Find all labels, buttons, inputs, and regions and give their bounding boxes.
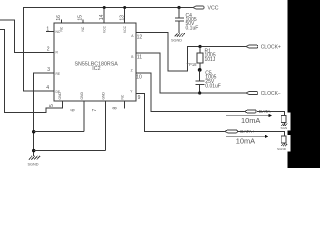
- svg-text:0.1uF: 0.1uF: [186, 25, 199, 31]
- svg-text:12: 12: [137, 34, 143, 40]
- svg-text:3: 3: [47, 67, 50, 73]
- pin 8 NC stub: [113, 94, 125, 109]
- terminal CLOCK+: [246, 45, 281, 51]
- ground SGND (C4): [171, 33, 185, 42]
- wire ground rail 1 to pin 6: [34, 131, 84, 133]
- pin 16 NC stub: [56, 15, 63, 32]
- svg-text:NC: NC: [121, 94, 125, 99]
- svg-text:16: 16: [56, 15, 62, 21]
- pin 13 VCC label: [120, 15, 127, 33]
- resistor termination 50ohm (DATA-): [281, 116, 286, 124]
- node junction ground rail 1: [32, 130, 35, 133]
- wire ground rail 2 to pin 7: [34, 150, 106, 152]
- pin 3 RE wire to ground net: [34, 67, 61, 156]
- svg-text:RE: RE: [56, 72, 61, 76]
- svg-text:10mA: 10mA: [236, 137, 255, 146]
- svg-text:6: 6: [71, 109, 77, 112]
- op-amp U1 : IC2 SN55LBC180RSA body: [54, 23, 136, 101]
- svg-text:7: 7: [92, 109, 98, 112]
- wire W2 from left edge to pin 5 (GND): [0, 29, 62, 112]
- resistor R1: [197, 47, 216, 70]
- svg-text:1: 1: [46, 26, 49, 32]
- pin 6 GND wire to ground rail: [71, 92, 84, 132]
- wire pin 10 Z to DATA-: [131, 68, 245, 111]
- node junction C4/VCC: [177, 6, 180, 9]
- svg-text:15: 15: [78, 15, 84, 21]
- node junction C5/CLOCK-: [198, 91, 201, 94]
- capacitor C4 0.1uF: [175, 8, 198, 34]
- svg-text:VCC: VCC: [102, 25, 106, 33]
- svg-text:8: 8: [113, 107, 119, 110]
- svg-text:Z: Z: [131, 68, 133, 72]
- svg-text:NC: NC: [81, 26, 85, 31]
- node junction pin13/VCC: [123, 6, 126, 9]
- black masked region: [288, 0, 320, 168]
- svg-text:GND: GND: [80, 92, 84, 100]
- pin 15 NC stub: [78, 15, 85, 32]
- wire DATA+ continues to termination: [238, 131, 285, 135]
- svg-text:IC2: IC2: [92, 66, 100, 72]
- terminal CLOCK-: [246, 91, 281, 97]
- svg-text:CLOCK+: CLOCK+: [261, 45, 281, 51]
- pin 4 DE: [46, 85, 61, 94]
- wire pin 9 Y to DATA+: [130, 89, 225, 131]
- ground SGND (DATA+ termination): [277, 144, 287, 151]
- svg-text:CLOCK−: CLOCK−: [261, 91, 281, 97]
- svg-text:14: 14: [99, 14, 105, 20]
- svg-text:GND: GND: [101, 92, 105, 100]
- pin 1 NC stub: [46, 26, 61, 34]
- pin 5 GND: [49, 92, 62, 107]
- wire pin 11 B to CLOCK-: [131, 53, 246, 93]
- svg-text:SGND: SGND: [171, 39, 182, 43]
- ground SGND (main): [28, 156, 41, 167]
- terminal DATA-: [245, 109, 274, 114]
- svg-text:13: 13: [120, 15, 126, 21]
- current arrow 10mA (DATA-): [226, 114, 272, 125]
- svg-text:11: 11: [137, 55, 142, 61]
- svg-text:10mA: 10mA: [241, 116, 260, 125]
- svg-text:5: 5: [49, 104, 55, 107]
- svg-text:NC: NC: [60, 26, 64, 31]
- terminal DATA+: [225, 129, 255, 134]
- wire W1 from left edge to pin 2 (R): [0, 20, 54, 52]
- svg-text:10: 10: [136, 74, 142, 80]
- node junction pin14/VCC: [103, 6, 106, 9]
- wire pin 12 A to CLOCK+ with dip: [131, 33, 246, 72]
- svg-text:SGND: SGND: [28, 163, 39, 167]
- node junction R1/CLOCK+: [198, 45, 201, 48]
- svg-text:VCC: VCC: [123, 25, 127, 33]
- capacitor C5 0.01uF: [196, 70, 221, 93]
- wire pin 14 to VCC rail: [103, 8, 105, 24]
- svg-text:2: 2: [47, 47, 50, 53]
- node TP18 test point junction: [187, 62, 202, 72]
- svg-text:TP18: TP18: [187, 62, 198, 67]
- current arrow 10mA (DATA+): [226, 135, 268, 146]
- svg-text:VCC: VCC: [208, 5, 219, 11]
- pin 7 GND wire to ground rail: [92, 92, 105, 151]
- svg-text:4: 4: [46, 85, 49, 91]
- wire DATA- continues to termination: [257, 111, 285, 115]
- resistor termination 50ohm (DATA+): [281, 136, 286, 144]
- svg-text:GND: GND: [58, 92, 62, 100]
- wire pin 13 to VCC rail: [124, 8, 126, 24]
- terminal VCC: [193, 5, 219, 11]
- svg-text:101J: 101J: [205, 57, 216, 63]
- node junction ground rail 2: [32, 149, 35, 152]
- pin 2 R: [47, 47, 59, 55]
- svg-text:SGND: SGND: [277, 147, 287, 151]
- svg-text:0.01uF: 0.01uF: [205, 84, 221, 90]
- ground SGND (DATA- termination): [281, 124, 291, 131]
- svg-text:9: 9: [138, 95, 141, 101]
- pin 14 VCC label: [99, 14, 106, 33]
- wire VCC rail with corner down to DE pin 4: [23, 8, 193, 92]
